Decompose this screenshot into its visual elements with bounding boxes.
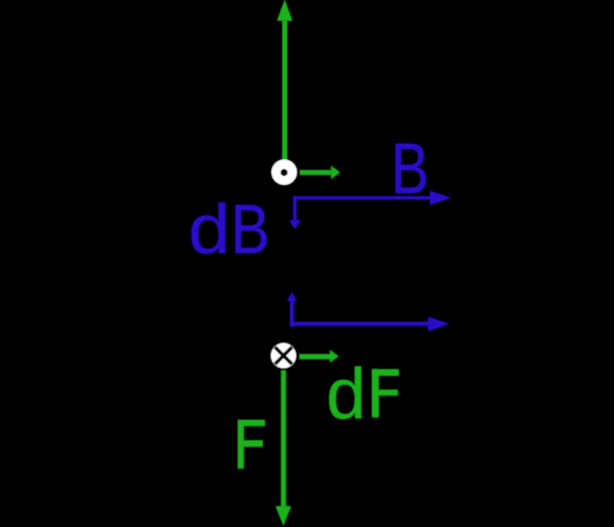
B field elbow arrow (blue, right then down): [289, 191, 450, 229]
label dB: [188, 190, 230, 268]
dL direction arrow (green, rightward from X circle): [300, 350, 339, 362]
label F: [238, 420, 265, 468]
svg-text:d: d: [188, 190, 230, 268]
current into page symbol (circle with X): [271, 343, 296, 368]
dL direction arrow (green, rightward from circle): [300, 166, 340, 179]
label dF: [326, 356, 366, 435]
label B: [391, 129, 429, 209]
second B field elbow arrow (blue, up then right): [287, 292, 449, 331]
vector v arrow (green, upward from current element): [277, 0, 292, 160]
current out of page symbol (circle with dot): [272, 160, 297, 185]
svg-text:B: B: [231, 190, 270, 268]
svg-text:d: d: [326, 356, 366, 435]
force F arrow (green, downward): [276, 370, 291, 525]
